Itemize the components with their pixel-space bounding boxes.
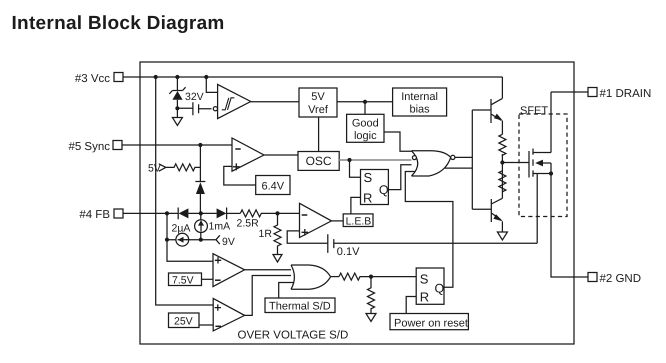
op-amp U5 current sense comparator	[300, 203, 332, 237]
wire to S input of latch U3	[350, 160, 361, 177]
pin #3 Vcc pad	[114, 73, 123, 82]
zener diode 32V	[169, 87, 185, 94]
wire source down to sense rail	[536, 174, 538, 244]
svg-text:9V: 9V	[222, 236, 235, 248]
wire comp out up to OR gate input2	[245, 276, 294, 316]
svg-text:R: R	[363, 191, 372, 206]
node OSC out / S branch	[347, 158, 351, 162]
node below 1mA	[199, 238, 203, 242]
svg-text:Q: Q	[379, 183, 389, 197]
wire R input from L.E.B	[351, 197, 361, 214]
svg-text:Good: Good	[352, 118, 379, 130]
wire 6.4V to + input	[224, 166, 256, 185]
svg-text:logic: logic	[354, 130, 377, 142]
node FB sense	[275, 211, 279, 215]
current source 1mA	[195, 220, 208, 233]
resistor divider upper	[499, 134, 506, 155]
wire Q feedback to NOR input 4	[405, 172, 453, 288]
svg-text:2.5R: 2.5R	[237, 218, 260, 230]
svg-text:6.4V: 6.4V	[261, 181, 284, 193]
wire bases vertical	[471, 110, 473, 209]
wire FB node to diode D2 and onward	[188, 212, 216, 214]
node S pulldown	[369, 275, 373, 279]
wire source/body to GND pad	[551, 174, 588, 278]
diode D1 on FB line (points left)	[177, 208, 179, 220]
chevron to 9V	[216, 235, 220, 244]
wire 1mA to FB node	[200, 213, 202, 239]
block Thermal S/D	[265, 298, 335, 313]
svg-text:Vref: Vref	[308, 104, 329, 116]
wire NOR lower edge to driver bases	[445, 167, 473, 169]
svg-text:R: R	[420, 290, 429, 305]
pin #2 GND pad	[588, 273, 597, 282]
node Vcc/buffer input branch	[204, 75, 208, 79]
block OSC	[298, 152, 339, 171]
op-amp U6 7.5V comparator	[213, 254, 245, 287]
svg-text:Internal: Internal	[401, 91, 438, 103]
wire LEB comp out	[332, 220, 344, 222]
wire comparator to OSC	[264, 154, 298, 156]
transistor Q2 lower driver	[472, 192, 502, 222]
SFET dashed box	[519, 114, 567, 217]
svg-text:#3 Vcc: #3 Vcc	[75, 73, 110, 85]
svg-text:5V: 5V	[311, 91, 325, 103]
svg-text:Thermal S/D: Thermal S/D	[269, 301, 331, 313]
pin #5 Sync pad	[113, 141, 122, 150]
pin #1 DRAIN pad	[588, 88, 597, 97]
capacitor to hysteresis buffer	[177, 102, 211, 115]
svg-text:#4 FB: #4 FB	[79, 209, 110, 221]
node Vcc/zener branch	[175, 75, 179, 79]
reference 6.4V	[256, 176, 290, 195]
wire OR out through resistor	[331, 276, 340, 278]
OR gate U8 overvoltage	[291, 265, 331, 289]
wire to LEB comparator - input	[278, 212, 300, 214]
diode to FB node (pointing up)	[195, 181, 205, 183]
NOR gate U4	[412, 151, 451, 176]
wire R from Power on reset	[406, 297, 416, 314]
wire comp out to OR gate	[245, 269, 294, 271]
wire down to ground	[176, 108, 178, 117]
resistor on S line	[339, 273, 371, 280]
ground below zener	[172, 118, 182, 126]
svg-text:SFET: SFET	[520, 105, 548, 117]
svg-text:#2 GND: #2 GND	[600, 273, 642, 285]
svg-text:OSC: OSC	[306, 154, 332, 168]
wire Vcc rail	[140, 76, 502, 78]
wire sync branch down	[199, 145, 201, 182]
op-amp U2 sync comparator	[232, 138, 264, 171]
wire zener branch	[176, 77, 178, 90]
svg-text:Q: Q	[435, 282, 445, 296]
op-amp U1 hysteresis buffer	[218, 84, 251, 118]
pin #4 FB pad	[114, 209, 123, 218]
reference 25V box	[169, 313, 200, 328]
svg-text:1mA: 1mA	[209, 221, 231, 233]
node Vcc/OVP branch	[154, 75, 158, 79]
svg-text:OVER VOLTAGE S/D: OVER VOLTAGE S/D	[238, 330, 349, 342]
node sync line branch	[198, 143, 202, 147]
node FB/OVP branch	[165, 211, 169, 215]
wire FB to + input	[167, 240, 213, 262]
latch U3 S/R	[361, 170, 389, 205]
node vref-bias/good logic	[363, 100, 367, 104]
wire down to Good logic	[364, 102, 366, 115]
wire lower bias line	[167, 213, 216, 239]
latch U9 S/R	[416, 268, 444, 304]
wire NOR output to driver bases	[455, 156, 472, 158]
capacitor 0.1V	[328, 234, 334, 253]
wire 25V box to - input	[199, 324, 213, 326]
resistor from 5V	[166, 164, 201, 171]
wire Vcc down to 25V comparator + input	[156, 77, 214, 305]
wire Vcc to buffer top input	[206, 77, 219, 92]
svg-text:#1 DRAIN: #1 DRAIN	[600, 88, 652, 100]
resistor pulldown	[368, 277, 375, 314]
wire buffer out to 5V Vref	[251, 101, 299, 103]
node lower-left	[165, 238, 169, 242]
wire Sync pad to comparator	[122, 144, 232, 146]
resistor 1R	[274, 213, 281, 254]
svg-text:7.5V: 7.5V	[172, 275, 194, 287]
wire drain to pad	[551, 91, 588, 93]
block Internal bias	[393, 88, 447, 116]
transistor Q1 upper driver	[472, 77, 502, 123]
diode D2 on FB line (points right)	[217, 208, 227, 218]
reference 7.5V box	[169, 273, 202, 286]
node zener/cap junction	[175, 106, 179, 110]
resistor 2.5R	[240, 210, 277, 217]
svg-text:32V: 32V	[185, 91, 204, 103]
regulator 5V Vref	[299, 88, 337, 117]
wire to latch S	[371, 276, 416, 278]
wire Vcc pad to rail	[123, 76, 140, 78]
wire sense rail to SFET source	[334, 242, 537, 244]
wire + input to 0.1V cap	[287, 231, 327, 243]
svg-text:Internal Block Diagram: Internal Block Diagram	[12, 13, 225, 34]
ground below 1R	[273, 255, 282, 263]
wire Vref to Internal bias	[337, 101, 393, 103]
svg-text:#5 Sync: #5 Sync	[68, 141, 110, 153]
node FB center	[199, 211, 203, 215]
IC outline box	[140, 62, 574, 344]
wire Q to NOR input 3	[388, 165, 417, 190]
svg-text:1R: 1R	[259, 228, 273, 240]
block L.E.B	[343, 214, 373, 227]
node gate drive	[500, 160, 504, 164]
wire Thermal S/D to OR gate input3	[279, 283, 295, 299]
op-amp U7 25V comparator	[213, 298, 244, 331]
svg-text:L.E.B: L.E.B	[346, 215, 372, 227]
ground below Q2	[497, 232, 507, 240]
svg-text:Power on reset: Power on reset	[394, 318, 468, 330]
svg-text:S: S	[420, 271, 429, 286]
wire FB pad to diode network	[123, 212, 178, 214]
wire Good logic to NOR gate top input	[384, 132, 412, 151]
wire OSC output (grey) to NOR bubble	[339, 159, 412, 161]
wire Vref down to OSC	[318, 117, 320, 152]
svg-text:2µA: 2µA	[172, 223, 191, 235]
svg-text:0.1V: 0.1V	[337, 246, 360, 258]
svg-text:25V: 25V	[174, 316, 193, 328]
wire 7.5V box to - input	[202, 278, 214, 280]
resistor divider lower	[499, 171, 506, 192]
block Good logic	[347, 114, 384, 142]
svg-text:S: S	[364, 170, 373, 185]
svg-text:bias: bias	[410, 104, 431, 116]
ground below pulldown	[366, 314, 376, 322]
block Power on reset	[390, 314, 468, 330]
MOSFET SFET	[502, 162, 529, 164]
